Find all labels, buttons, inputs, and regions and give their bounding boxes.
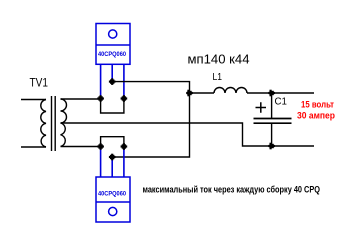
junction D1 pin3 node	[121, 95, 128, 102]
wire output node down to D2 cathode	[112, 93, 189, 157]
wire D1 anode strap	[101, 99, 124, 114]
junction D1 cathode node	[109, 78, 116, 85]
junction D2 pin1 node	[97, 143, 104, 150]
diode assembly D2 pin 1	[100, 147, 102, 178]
transformer TV1 secondary winding lower half	[61, 123, 66, 147]
wire D1 cathode to output node	[112, 82, 189, 93]
svg-text:15 вольт: 15 вольт	[301, 100, 334, 111]
junction D1 pin1 node	[97, 95, 104, 102]
capacitor C1 polarity plus sign	[256, 102, 267, 113]
diode assembly D2 mounting hole	[109, 207, 117, 215]
diode assembly D1 package body	[96, 24, 130, 65]
inductor L1 label	[213, 71, 223, 83]
transformer TV1 primary winding	[41, 100, 46, 148]
capacitor C1 plates	[254, 119, 292, 124]
capacitor C1 bottom lead wire	[271, 123, 273, 146]
svg-text:30 ампер: 30 ампер	[297, 111, 335, 122]
svg-text:40CPQ060: 40CPQ060	[98, 191, 126, 198]
transformer TV1 primary bottom lead wire	[21, 146, 46, 148]
diode assembly D1 pin 1	[100, 64, 102, 98]
capacitor C1 label	[275, 96, 288, 108]
svg-text:максимальный ток через каждую: максимальный ток через каждую сборку 40 …	[143, 185, 321, 195]
wire output node to inductor L1	[190, 92, 215, 94]
diode assembly D2 pin 2	[111, 157, 113, 177]
inductor L1	[214, 88, 247, 93]
wire D2 anode strap	[101, 137, 124, 147]
diode assembly D2 package body	[96, 177, 130, 222]
note text mp140 k44	[188, 52, 250, 67]
diode assembly D2 pin 3	[123, 147, 125, 178]
svg-text:L1: L1	[213, 71, 223, 83]
wire secondary top lead to D1 left pin	[61, 98, 101, 100]
diode assembly D1 pin 3	[123, 64, 125, 98]
wire inductor L1 to positive rail end	[247, 92, 314, 94]
note text 15 volt	[301, 100, 334, 111]
wire secondary center tap to bottom rail	[61, 123, 315, 146]
svg-text:мп140 к44: мп140 к44	[188, 52, 250, 67]
svg-text:TV1: TV1	[30, 76, 49, 90]
svg-text:C1: C1	[275, 96, 288, 108]
diode assembly D1 pin 2	[111, 64, 113, 81]
diode assembly D1 value label 40CPQ060	[98, 51, 126, 58]
svg-text:40CPQ060: 40CPQ060	[98, 51, 126, 58]
transformer TV1 core	[52, 96, 56, 151]
transformer TV1 primary top lead wire	[21, 99, 46, 101]
junction output node A	[186, 90, 193, 97]
transformer TV1 label	[30, 76, 49, 90]
note text maximum current through each assembly 40 CPQ	[143, 185, 321, 195]
junction C1 top node	[268, 90, 275, 97]
junction C1 bottom node	[268, 143, 275, 150]
diode assembly D1 mounting hole	[109, 30, 117, 38]
capacitor C1 top lead wire	[271, 93, 273, 119]
junction D2 pin3 node	[121, 143, 128, 150]
wire secondary bottom lead to D2 left pin	[61, 146, 101, 148]
note text 30 amper	[297, 111, 335, 122]
junction D2 cathode node	[109, 154, 116, 161]
diode assembly D2 value label 40CPQ060	[98, 191, 126, 198]
transformer TV1 secondary winding upper half	[61, 99, 67, 123]
